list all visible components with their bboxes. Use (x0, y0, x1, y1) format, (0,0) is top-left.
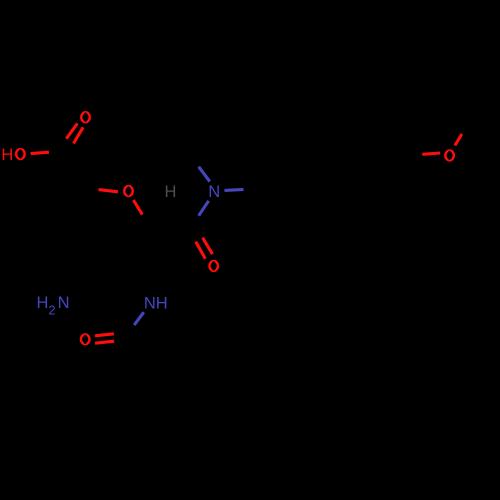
svg-text:H: H (36, 294, 48, 312)
svg-text:N: N (58, 294, 70, 312)
bond O-CH (133, 200, 142, 215)
svg-text:N: N (208, 183, 220, 201)
acetamide O label (80, 333, 91, 345)
amide C=O line a (196, 242, 206, 259)
svg-text:NH: NH (144, 294, 168, 312)
bond NH-C (134, 312, 144, 325)
bond N-C carbonyl (199, 201, 209, 216)
C=O double bond line b (74, 127, 84, 143)
amide O label (208, 260, 219, 272)
methoxy bond ring-O (422, 153, 440, 154)
methoxy O label (444, 149, 455, 161)
svg-text:2: 2 (48, 304, 55, 318)
bond N up-left (199, 167, 210, 182)
carboxyl O label (80, 111, 91, 123)
acetamide C=O bottom line (95, 341, 114, 343)
C=O double bond line a (66, 123, 77, 138)
bond N-methyl right (225, 189, 244, 190)
svg-text:H: H (1, 146, 13, 164)
bond HO-C (31, 152, 49, 153)
methoxy O-CH3 bond (455, 134, 462, 146)
bond CH2-O ether (99, 190, 119, 192)
amide C=O line b (203, 238, 213, 255)
acetamide C=O top line (95, 334, 114, 336)
ether O label (123, 185, 134, 197)
svg-text:H: H (165, 183, 177, 201)
